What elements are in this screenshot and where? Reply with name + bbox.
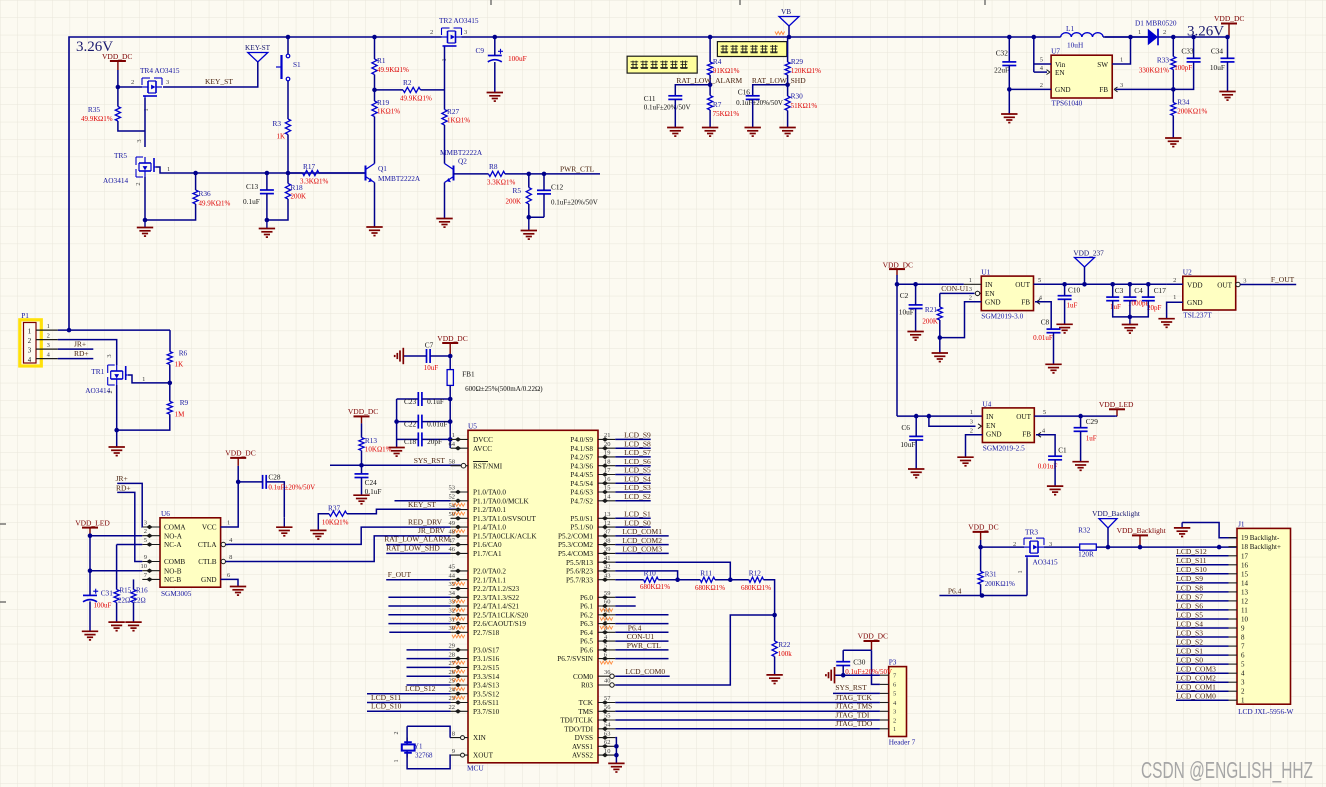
svg-text:CTLB: CTLB bbox=[198, 558, 217, 566]
svg-text:R5: R5 bbox=[512, 186, 521, 195]
wire LCD_COM1 at J1 bbox=[1176, 690, 1229, 692]
svg-text:AVSS2: AVSS2 bbox=[572, 752, 593, 760]
svg-text:C4: C4 bbox=[1134, 286, 1143, 295]
wire P6.3 stub bbox=[615, 623, 668, 625]
capacitor C16 bbox=[746, 95, 760, 97]
svg-text:46: 46 bbox=[449, 546, 456, 553]
wire C3/C4/C17 bottom rail bbox=[1113, 301, 1149, 317]
junction C6 column bbox=[914, 414, 919, 419]
svg-text:COM0: COM0 bbox=[573, 673, 593, 681]
svg-text:LCD_S1: LCD_S1 bbox=[1176, 647, 1203, 656]
pin U5.29 P3.0 bbox=[451, 649, 469, 651]
svg-text:JR+: JR+ bbox=[116, 474, 128, 483]
svg-text:R17: R17 bbox=[303, 162, 316, 171]
svg-text:R9: R9 bbox=[180, 398, 189, 407]
wire FB to C33 bbox=[1173, 62, 1193, 90]
svg-text:64: 64 bbox=[449, 441, 456, 448]
resistor R36 bbox=[193, 190, 198, 204]
svg-text:5: 5 bbox=[1038, 277, 1041, 284]
resistor R30 bbox=[785, 96, 790, 111]
svg-text:VDD_DC: VDD_DC bbox=[348, 407, 378, 416]
capacitor C24 bbox=[355, 473, 369, 475]
svg-text:1: 1 bbox=[452, 432, 455, 439]
svg-text:5: 5 bbox=[144, 537, 147, 544]
svg-text:P4.6/S3: P4.6/S3 bbox=[570, 489, 593, 497]
pin U1.3 EN wire bbox=[940, 292, 975, 294]
svg-text:TR3: TR3 bbox=[1025, 528, 1038, 537]
wire NC-A to R15 bbox=[117, 544, 143, 546]
svg-text:TDO/TDI: TDO/TDI bbox=[564, 725, 593, 733]
pin U5.19 P4.2 bbox=[598, 456, 615, 458]
transistor Q2 MMBT2222A bbox=[453, 166, 455, 181]
pin U4.2 GND wire bbox=[966, 435, 983, 457]
pin U5.44 P2.1 bbox=[451, 579, 469, 581]
pin U5.15 P4.6 bbox=[598, 491, 615, 493]
svg-text:R6: R6 bbox=[179, 349, 188, 358]
svg-text:VDD_DC: VDD_DC bbox=[1214, 14, 1244, 23]
svg-text:49.9KΩ1%: 49.9KΩ1% bbox=[400, 95, 432, 103]
svg-text:LCD_COM3: LCD_COM3 bbox=[622, 545, 662, 554]
svg-text:3.3KΩ1%: 3.3KΩ1% bbox=[487, 179, 516, 187]
ground R16 bbox=[125, 621, 141, 623]
wire LCD_S11 at J1 bbox=[1176, 564, 1229, 566]
svg-text:LCD_S5: LCD_S5 bbox=[1176, 610, 1203, 619]
pin U5.49 P1.4 bbox=[451, 526, 469, 528]
svg-text:P5.7/R33: P5.7/R33 bbox=[566, 576, 593, 584]
wire S1 to R3 bbox=[287, 81, 289, 119]
svg-text:LCD_S12: LCD_S12 bbox=[1176, 547, 1207, 556]
svg-text:9: 9 bbox=[144, 554, 147, 561]
pin U5.23 P3.6 bbox=[451, 702, 469, 704]
svg-text:2: 2 bbox=[28, 338, 32, 345]
svg-text:LCD_S1: LCD_S1 bbox=[624, 510, 651, 519]
svg-text:P5.1/S0: P5.1/S0 bbox=[570, 524, 593, 532]
svg-text:91KΩ1%: 91KΩ1% bbox=[713, 67, 740, 75]
svg-text:C29: C29 bbox=[1086, 417, 1099, 426]
svg-text:AVSS1: AVSS1 bbox=[572, 743, 593, 751]
svg-text:VDD: VDD bbox=[1187, 281, 1203, 289]
pin U5.63 DVSS bbox=[598, 737, 615, 739]
pin U5.59 P6.0 bbox=[598, 596, 615, 598]
svg-text:100uF: 100uF bbox=[508, 54, 527, 63]
svg-text:U4: U4 bbox=[982, 399, 991, 408]
svg-text:FB: FB bbox=[1021, 299, 1030, 307]
junction C29 column bbox=[1078, 414, 1083, 419]
svg-text:20pF: 20pF bbox=[1147, 304, 1162, 312]
wire VB to bus bbox=[788, 26, 790, 37]
svg-text:14: 14 bbox=[604, 494, 611, 501]
svg-text:C11: C11 bbox=[644, 94, 656, 103]
wire LCD_S4 at MCU bbox=[615, 482, 650, 484]
svg-text:3: 3 bbox=[969, 286, 972, 293]
wire rail down to U4 bbox=[896, 284, 898, 416]
svg-text:C8: C8 bbox=[1041, 318, 1050, 327]
svg-text:2: 2 bbox=[131, 79, 134, 86]
svg-text:CON-U1: CON-U1 bbox=[941, 284, 969, 293]
pin U5.28 P3.1 bbox=[451, 658, 469, 660]
pin U5.39 P5.4 bbox=[598, 552, 615, 554]
svg-text:49.9K: 49.9K bbox=[81, 115, 98, 123]
svg-text:2: 2 bbox=[144, 528, 147, 535]
wire Q1 collector to R19 bbox=[374, 117, 376, 164]
svg-text:1: 1 bbox=[1173, 294, 1176, 301]
svg-text:R8: R8 bbox=[489, 162, 498, 171]
svg-text:200K: 200K bbox=[922, 318, 938, 326]
pin P3.2 bbox=[880, 719, 889, 721]
ground J1 pin19 bbox=[1181, 523, 1183, 528]
svg-text:P5.0/S1: P5.0/S1 bbox=[570, 515, 593, 523]
junction C4 column bbox=[1128, 282, 1133, 287]
svg-text:R22: R22 bbox=[778, 640, 791, 649]
svg-text:R33: R33 bbox=[1157, 56, 1170, 65]
svg-text:LCD_S6: LCD_S6 bbox=[1176, 601, 1203, 610]
svg-text:AO3415: AO3415 bbox=[1033, 557, 1058, 566]
svg-text:LCD_COM2: LCD_COM2 bbox=[622, 536, 662, 545]
svg-text:NC-B: NC-B bbox=[164, 576, 181, 584]
resistor R2 bbox=[403, 87, 421, 92]
svg-text:1: 1 bbox=[227, 520, 230, 527]
wire TR4 gate to TR5 bbox=[144, 98, 146, 147]
svg-text:R30: R30 bbox=[791, 92, 804, 101]
svg-text:19 Backlight-: 19 Backlight- bbox=[1241, 534, 1280, 542]
wire R15 to ground bbox=[116, 603, 118, 622]
svg-text:VDD_Backlight: VDD_Backlight bbox=[1092, 509, 1140, 518]
svg-text:22uF: 22uF bbox=[994, 66, 1009, 75]
svg-text:LCD_COM0: LCD_COM0 bbox=[626, 667, 666, 676]
pin U5.22 P3.7 bbox=[451, 710, 469, 712]
wire JR_DRV from U6 CTLB bbox=[228, 536, 451, 562]
pin U5.27 P3.2 bbox=[451, 666, 469, 668]
wire R13 to SYS_RST node bbox=[361, 451, 363, 474]
resistor R13 bbox=[359, 438, 364, 451]
wire JTAG_TCK bbox=[615, 702, 880, 704]
svg-text:AO3414: AO3414 bbox=[103, 176, 128, 185]
svg-text:LCD_S9: LCD_S9 bbox=[1176, 574, 1203, 583]
svg-text:1: 1 bbox=[28, 328, 31, 335]
ground R5 bbox=[528, 217, 530, 230]
svg-text:C16: C16 bbox=[738, 87, 751, 96]
svg-text:1: 1 bbox=[143, 108, 150, 111]
svg-text:1M: 1M bbox=[175, 411, 186, 419]
resistor R16 bbox=[133, 579, 135, 589]
wire C8 to ground bbox=[1053, 333, 1055, 364]
svg-text:TMS: TMS bbox=[578, 708, 593, 716]
svg-text:P5.3/COM2: P5.3/COM2 bbox=[558, 541, 593, 549]
svg-text:R7: R7 bbox=[713, 100, 722, 109]
wire bus to C32 bbox=[1008, 37, 1010, 62]
svg-text:29: 29 bbox=[449, 643, 456, 650]
IC U6 SGM3005 bbox=[160, 518, 221, 587]
svg-text:17: 17 bbox=[604, 467, 611, 474]
transistor TR3 AO3415 bbox=[1024, 546, 1030, 548]
wire RAT_LOW_SHD at MCU bbox=[386, 552, 450, 554]
svg-text:GND: GND bbox=[1187, 299, 1203, 307]
wire C10 to ground bbox=[1064, 299, 1066, 324]
pin U5.60 P6.1 bbox=[598, 605, 615, 607]
svg-text:NC-A: NC-A bbox=[164, 541, 182, 549]
wire P6.1 stub bbox=[615, 605, 635, 607]
svg-text:LCD_S7: LCD_S7 bbox=[624, 448, 651, 457]
svg-text:P3.3/S14: P3.3/S14 bbox=[473, 673, 500, 681]
pin U5.25 P3.4 bbox=[451, 684, 469, 686]
wire LCD_S5 at MCU bbox=[615, 474, 650, 476]
svg-text:26: 26 bbox=[449, 669, 456, 676]
svg-text:17: 17 bbox=[1241, 552, 1249, 560]
wire JTAG_TDI bbox=[615, 719, 880, 721]
svg-text:120R: 120R bbox=[1078, 550, 1094, 559]
svg-text:0.1uF±20%/50V: 0.1uF±20%/50V bbox=[736, 99, 783, 107]
svg-text:9: 9 bbox=[452, 748, 455, 755]
svg-text:13: 13 bbox=[1241, 588, 1249, 596]
svg-text:U7: U7 bbox=[1051, 47, 1060, 56]
svg-text:39: 39 bbox=[604, 546, 611, 553]
wire JTAG_TDO bbox=[615, 728, 880, 730]
svg-text:10: 10 bbox=[141, 563, 148, 570]
svg-text:P1.4/TA1.0: P1.4/TA1.0 bbox=[473, 524, 506, 532]
pin U5.53 P1.0 bbox=[451, 491, 469, 493]
pin U6.7 NC-B bbox=[142, 578, 160, 580]
ground C28 bbox=[283, 517, 285, 526]
svg-text:LCD_S8: LCD_S8 bbox=[624, 439, 651, 448]
resistor R5 bbox=[526, 188, 531, 205]
svg-text:JTAG_TCK: JTAG_TCK bbox=[835, 693, 872, 702]
junction C18 right bbox=[448, 437, 453, 442]
svg-text:VDD_DC: VDD_DC bbox=[102, 52, 132, 61]
svg-text:3: 3 bbox=[1241, 679, 1245, 687]
wire bus to R4 bbox=[709, 37, 711, 62]
svg-text:3: 3 bbox=[1120, 82, 1123, 89]
pin U5.6 P6.7 bbox=[598, 658, 615, 660]
svg-text:C6: C6 bbox=[901, 423, 910, 432]
resistor R3 bbox=[285, 119, 290, 135]
svg-text:2: 2 bbox=[1163, 29, 1166, 36]
svg-text:VDD_DC: VDD_DC bbox=[437, 334, 467, 343]
svg-text:DVCC: DVCC bbox=[473, 436, 493, 444]
svg-text:P2.1/TA1.1: P2.1/TA1.1 bbox=[473, 576, 506, 584]
svg-text:P3.4/S13: P3.4/S13 bbox=[473, 682, 500, 690]
svg-text:R27: R27 bbox=[447, 107, 460, 116]
pin U4.4 FB wire bbox=[1038, 432, 1042, 437]
pin U5.18 P4.3 bbox=[598, 465, 615, 467]
svg-text:R37: R37 bbox=[328, 504, 341, 513]
wire C1 to ground bbox=[1054, 460, 1056, 486]
pin U5.54 P1.2 bbox=[451, 509, 469, 511]
svg-text:P3.6/S11: P3.6/S11 bbox=[473, 699, 499, 707]
resistor R10 bbox=[644, 577, 659, 582]
svg-text:P2.7/S18: P2.7/S18 bbox=[473, 629, 500, 637]
ground U2 bbox=[1158, 318, 1174, 320]
svg-text:C31: C31 bbox=[101, 588, 114, 597]
highlight box chinese label 2 bbox=[717, 42, 786, 57]
svg-text:1: 1 bbox=[1241, 697, 1245, 705]
wire LCD_COM1 at MCU bbox=[615, 535, 668, 537]
ground C34 bbox=[1219, 91, 1235, 93]
svg-text:P6.2: P6.2 bbox=[580, 611, 593, 619]
pin P1.4 bbox=[36, 358, 58, 360]
pin U7.2 GND bbox=[1009, 88, 1051, 90]
resistor R19 bbox=[372, 101, 377, 117]
wire R11-R12 bbox=[715, 579, 749, 581]
wire C31 to ground bbox=[89, 601, 91, 630]
svg-text:P2.0/TA0.2: P2.0/TA0.2 bbox=[473, 568, 506, 576]
svg-text:LCD_S11: LCD_S11 bbox=[371, 693, 401, 702]
svg-text:R34: R34 bbox=[1177, 98, 1190, 107]
pin U7.1 SW bbox=[1112, 37, 1130, 64]
svg-text:200KΩ1%: 200KΩ1% bbox=[985, 580, 1015, 588]
svg-text:LCD_COM3: LCD_COM3 bbox=[1176, 665, 1216, 674]
svg-text:P2.6/CAOUT/S19: P2.6/CAOUT/S19 bbox=[473, 620, 526, 628]
svg-text:DVSS: DVSS bbox=[575, 734, 593, 742]
diode D1 MBR0520 bbox=[1148, 29, 1158, 46]
svg-text:P2.2/TA1.2/S23: P2.2/TA1.2/S23 bbox=[473, 585, 520, 593]
svg-text:0.1uF: 0.1uF bbox=[243, 197, 260, 206]
svg-text:PWR_CTL: PWR_CTL bbox=[560, 165, 595, 174]
wire node to C11 bbox=[675, 85, 710, 96]
svg-text:100pF: 100pF bbox=[1174, 64, 1192, 72]
pin U5.21 P4.0 bbox=[598, 438, 615, 440]
svg-text:43: 43 bbox=[604, 572, 611, 579]
wire JTAG_TMS bbox=[615, 710, 880, 712]
wire P6.4 stub at MCU bbox=[615, 631, 668, 633]
svg-text:3: 3 bbox=[893, 709, 896, 716]
svg-text:P6.1: P6.1 bbox=[580, 603, 593, 611]
wire KEY_ST bbox=[163, 62, 258, 87]
pin U7.5 Vin bbox=[1034, 63, 1051, 65]
connector J1 LCD bbox=[1237, 528, 1291, 704]
wire TR5 source to ground rail bbox=[145, 177, 196, 220]
wire bypass left bus bbox=[396, 399, 398, 447]
svg-text:2: 2 bbox=[969, 295, 972, 302]
svg-text:C3: C3 bbox=[1115, 286, 1124, 295]
wire LCD_S10 at J1 bbox=[1176, 573, 1229, 575]
pin U5.1 DVCC bbox=[451, 438, 469, 440]
capacitor C10 bbox=[1058, 295, 1072, 297]
power flag VDD_LED left bbox=[82, 527, 98, 529]
capacitor C34 bbox=[1221, 57, 1235, 59]
wire P2.6 stub bbox=[388, 623, 450, 625]
pin U5.46 P1.7 bbox=[451, 552, 469, 554]
wire R4 to RAT_LOW_ALARM node bbox=[709, 75, 711, 96]
pin J1.13 bbox=[1229, 591, 1238, 593]
svg-text:Y1: Y1 bbox=[414, 743, 423, 751]
wire P1.3 stub bbox=[58, 348, 94, 350]
svg-text:18: 18 bbox=[604, 458, 611, 465]
svg-text:1: 1 bbox=[1138, 29, 1141, 36]
capacitor C30 bbox=[836, 661, 850, 663]
svg-text:P6.0: P6.0 bbox=[580, 594, 593, 602]
svg-text:OUT: OUT bbox=[1015, 281, 1030, 289]
svg-text:P6.7/SVSIN: P6.7/SVSIN bbox=[557, 655, 594, 663]
svg-text:RED_DRV: RED_DRV bbox=[408, 517, 443, 526]
pin U5.13 P5.0 bbox=[598, 517, 615, 519]
svg-text:P1.0/TA0.0: P1.0/TA0.0 bbox=[473, 489, 506, 497]
wire R37 to KEY_ST pin bbox=[347, 509, 461, 514]
svg-text:22: 22 bbox=[449, 704, 456, 711]
wire R9 bottom to TR1 source bbox=[117, 414, 170, 430]
wire LCD_S12 at J1 bbox=[1176, 555, 1229, 557]
svg-text:TSL237T: TSL237T bbox=[1183, 311, 1212, 320]
ground R34 bbox=[1165, 137, 1181, 139]
svg-text:TR2 AO3415: TR2 AO3415 bbox=[439, 16, 479, 25]
wire P6.0 stub bbox=[615, 596, 635, 598]
wire C11 to ground bbox=[674, 99, 676, 127]
power flag VDD_DC at TR3 bbox=[973, 531, 989, 533]
wire C24 to ground bbox=[361, 478, 363, 495]
svg-text:C34: C34 bbox=[1211, 47, 1224, 56]
pin U5.41 P5.5 bbox=[598, 561, 615, 563]
svg-text:P1.5/TA0CLK/ACLK: P1.5/TA0CLK/ACLK bbox=[473, 533, 537, 541]
wire NO-A bbox=[90, 535, 142, 537]
svg-text:3: 3 bbox=[144, 520, 147, 527]
svg-text:1: 1 bbox=[1017, 570, 1024, 573]
capacitor C32 bbox=[1002, 61, 1016, 63]
pin U5.50 P1.3 bbox=[451, 517, 469, 519]
resistor R27 bbox=[442, 110, 447, 126]
pin U5.31 P2.6 bbox=[451, 623, 469, 625]
sheet zone tick top 2 bbox=[739, 0, 741, 5]
svg-text:RD+: RD+ bbox=[74, 349, 89, 358]
capacitor C3 bbox=[1106, 296, 1119, 298]
transistor TR5 AO3414 bbox=[144, 157, 146, 163]
svg-text:AO3414: AO3414 bbox=[85, 386, 110, 395]
svg-text:C2: C2 bbox=[900, 291, 909, 300]
pin U5.54 TDO bbox=[598, 728, 615, 730]
svg-text:3: 3 bbox=[464, 29, 467, 36]
svg-text:16: 16 bbox=[1241, 561, 1249, 569]
svg-text:9: 9 bbox=[1241, 625, 1245, 633]
svg-text:P4.1/S8: P4.1/S8 bbox=[570, 445, 593, 453]
svg-text:61: 61 bbox=[604, 608, 611, 615]
pin U5.4 P6.5 bbox=[598, 640, 615, 642]
pin U5.12 P5.1 bbox=[598, 526, 615, 528]
svg-text:32: 32 bbox=[449, 608, 456, 615]
wire COM0 stub bbox=[615, 675, 669, 677]
ground Q1 bbox=[366, 226, 382, 228]
svg-text:C10: C10 bbox=[1068, 286, 1081, 295]
resistor R15 bbox=[116, 545, 118, 590]
pin U7.4 EN bbox=[1034, 71, 1047, 73]
transistor TR2 AO3415 bbox=[442, 36, 448, 38]
ground Q2 bbox=[436, 218, 452, 220]
wire RED_DRV from U6 CTLA bbox=[228, 527, 451, 544]
capacitor C12 bbox=[537, 189, 551, 191]
wire SYS_RST row bbox=[330, 464, 362, 466]
svg-text:LCD_COM2: LCD_COM2 bbox=[1176, 674, 1216, 683]
junction C7 bbox=[448, 354, 453, 359]
resistor R31 bbox=[980, 547, 982, 571]
capacitor C7 bbox=[426, 349, 428, 363]
svg-text:200K: 200K bbox=[505, 198, 521, 206]
capacitor C6 bbox=[909, 435, 923, 437]
svg-text:VDD_DC: VDD_DC bbox=[883, 261, 913, 270]
svg-text:1: 1 bbox=[167, 166, 170, 173]
wire R7 to ground bbox=[709, 110, 711, 127]
svg-text:10uF: 10uF bbox=[424, 364, 439, 372]
svg-text:C28: C28 bbox=[268, 473, 281, 482]
wire LCD_S11 at MCU bbox=[367, 702, 451, 704]
wire TR3 gate to P6.4 net bbox=[1026, 558, 1028, 595]
wire R10-R11 bbox=[658, 579, 700, 581]
wire R31 to P6.4 wire bbox=[980, 584, 982, 595]
svg-text:VDD_DC: VDD_DC bbox=[225, 449, 255, 458]
svg-text:LCD_COM1: LCD_COM1 bbox=[1176, 683, 1216, 692]
svg-text:5: 5 bbox=[604, 643, 607, 650]
svg-text:P4.3/S6: P4.3/S6 bbox=[570, 462, 593, 470]
svg-text:P1.6/CA0: P1.6/CA0 bbox=[473, 541, 502, 549]
wire R34 to ground bbox=[1172, 116, 1174, 138]
svg-text:Vin: Vin bbox=[1055, 61, 1066, 69]
pin U5.10 AVSS2 bbox=[598, 754, 615, 756]
